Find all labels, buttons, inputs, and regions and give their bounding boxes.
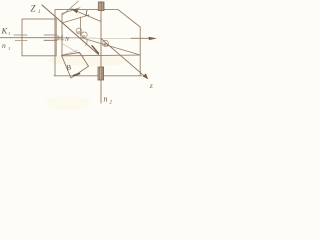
collimator K1 box (22, 19, 56, 56)
prism back slanted edge (62, 15, 89, 23)
arrowhead of L arrow (71, 9, 79, 14)
prism interior vertical edge (80, 17, 82, 36)
L dimension arrow shaft (72, 9, 102, 22)
refracted ray shallow diagonal (81, 38, 141, 56)
top hatched plate (98, 2, 104, 11)
svg-text:1: 1 (8, 46, 10, 51)
svg-text:L: L (84, 9, 90, 18)
prism base quad B (62, 52, 89, 78)
Z horizontal arrow (96, 37, 131, 39)
prism housing box (54, 10, 142, 76)
vertical axis n2 (100, 2, 102, 104)
prism slanted edge steep (63, 1, 79, 15)
wire: optical axis from left edge (0, 37, 62, 39)
prism bottom horizontal edge (62, 54, 140, 57)
label Z1 (1, 4, 153, 106)
arrowhead of Z diagonal arrow (143, 73, 149, 79)
svg-text:n: n (104, 95, 108, 104)
prism front-left vertical edge (61, 14, 63, 56)
Z diagonal axis down-right (102, 39, 147, 78)
angle arc phi (86, 40, 88, 46)
paper background (0, 0, 160, 112)
ray from base vertex (62, 50, 78, 55)
base tick dark (74, 74, 80, 76)
svg-text:1: 1 (38, 10, 40, 15)
beam diagonal faint (63, 44, 84, 57)
arrowhead of Z horizontal arrow (149, 37, 158, 40)
prism slanted edge shallow (62, 8, 80, 14)
wire: axis double line segment (54, 39, 64, 41)
bowtie lens symbol (58, 35, 63, 41)
lens marks in K1 (44, 34, 57, 36)
reticle plate ticks left (14, 34, 27, 36)
Z1 arrowhead (92, 46, 99, 54)
svg-text:z: z (149, 81, 153, 90)
bottom hatched plate (98, 67, 104, 80)
phi1 circled label (76, 28, 109, 47)
Z1 axis diagonal through prism (42, 5, 99, 55)
svg-text:n: n (2, 41, 6, 50)
svg-text:1: 1 (8, 31, 10, 36)
